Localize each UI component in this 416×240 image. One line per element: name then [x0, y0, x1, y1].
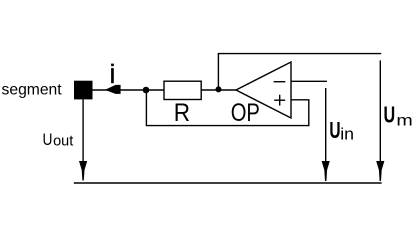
svg-text:U: U	[329, 118, 340, 144]
svg-text:R: R	[174, 100, 190, 127]
svg-text:in: in	[340, 124, 354, 144]
svg-text:U: U	[43, 131, 53, 150]
svg-text:segment: segment	[2, 81, 63, 98]
svg-text:m: m	[396, 111, 412, 129]
svg-text:OP: OP	[231, 99, 260, 126]
svg-text:out: out	[53, 134, 73, 150]
svg-text:U: U	[384, 103, 396, 129]
